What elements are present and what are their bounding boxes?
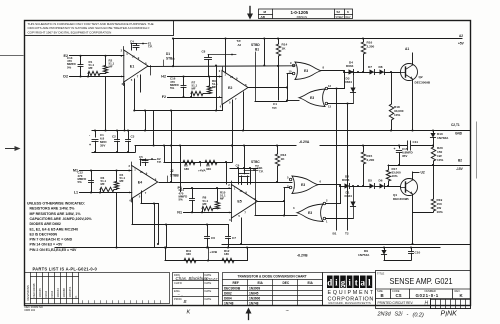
- wire strobe drop: [264, 39, 266, 66]
- svg-text:T2: T2: [345, 232, 349, 236]
- wire bus 4d: [230, 168, 258, 170]
- svg-text:9: 9: [245, 191, 247, 195]
- svg-text:PIN 2 ON E1,E2,E4,E5 = +8V: PIN 2 ON E1,E2,E4,E5 = +8V: [30, 248, 78, 252]
- bottom up arrow: [246, 308, 252, 320]
- svg-text:a: a: [361, 277, 366, 287]
- node J2 STBB: [167, 176, 169, 182]
- svg-text:52: 52: [337, 10, 341, 14]
- svg-text:TITLE: TITLE: [377, 271, 385, 275]
- svg-text:B: B: [381, 293, 384, 298]
- svg-text:-6.2VA: -6.2VA: [299, 140, 310, 144]
- wire Q2 emitter down: [412, 81, 414, 131]
- svg-text:35V: 35V: [100, 144, 105, 148]
- wire bus 5a: [154, 204, 156, 248]
- svg-text:C11: C11: [413, 140, 419, 144]
- svg-text:DEC3009B: DEC3009B: [224, 287, 241, 291]
- capacitor C12: [91, 171, 93, 181]
- svg-text:180: 180: [184, 167, 189, 171]
- capacitor C4: [131, 44, 133, 51]
- svg-text:D7: D7: [368, 65, 372, 69]
- svg-text:10: 10: [239, 189, 242, 193]
- svg-text:A2: A2: [238, 43, 242, 47]
- svg-text:MF: MF: [192, 87, 196, 91]
- svg-text:4: 4: [219, 95, 221, 99]
- svg-text:RESISTORS ARE 1/4W, 5%: RESISTORS ARE 1/4W, 5%: [30, 207, 76, 211]
- wire D9/C10 bottom: [384, 260, 411, 262]
- svg-text:9: 9: [146, 172, 148, 176]
- svg-text:12: 12: [328, 84, 331, 88]
- capacitor C15 6.8MFD: [399, 146, 401, 149]
- svg-text:3: 3: [228, 186, 230, 190]
- resistor R16 2,200: [363, 39, 365, 43]
- svg-text:D662: D662: [224, 292, 232, 296]
- svg-text:T.P.: T.P.: [272, 106, 277, 110]
- svg-text:330: 330: [186, 252, 191, 256]
- svg-text:DEC3009B: DEC3009B: [393, 197, 409, 201]
- svg-text:d: d: [327, 277, 332, 287]
- wire GND rail: [92, 130, 470, 132]
- svg-text:-15V: -15V: [456, 167, 464, 171]
- resistor R19 150 1W 10%: [433, 165, 435, 199]
- svg-text:PROD.: PROD.: [174, 297, 182, 301]
- wire input lines: [184, 188, 232, 190]
- op-amp E2: [222, 71, 248, 105]
- svg-text:H: H: [425, 301, 429, 307]
- svg-text:K: K: [74, 296, 78, 298]
- svg-text:D664: D664: [345, 194, 353, 198]
- parts list / revisions table: [25, 273, 170, 304]
- resistor R14 1K: [278, 39, 280, 45]
- signature block: [173, 273, 219, 306]
- svg-text:2: 2: [121, 49, 123, 53]
- wire gate2 in13: [328, 103, 353, 105]
- svg-text:+4VA: +4VA: [198, 169, 206, 173]
- svg-text:9: 9: [138, 56, 140, 60]
- svg-text:C9: C9: [236, 164, 240, 168]
- diode D4 D664: [344, 72, 349, 74]
- svg-text:MF: MF: [220, 197, 224, 201]
- gate E3 (pins 5,4,6): [292, 176, 318, 194]
- small rev boxes row: [431, 300, 471, 309]
- scan artifact: fold line right edge: [476, 122, 478, 178]
- wire R4 column down: [116, 193, 118, 248]
- svg-text:UNLESS OTHERWISE INDICATED:: UNLESS OTHERWISE INDICATED:: [27, 202, 85, 206]
- svg-text:180: 180: [224, 252, 229, 256]
- ruler ticks bottom of parts table: [83, 301, 161, 304]
- wire E1 pin7 stub: [140, 75, 142, 92]
- svg-text:T.P.: T.P.: [157, 160, 162, 164]
- svg-text:1: 1: [326, 220, 328, 224]
- svg-text:1K: 1K: [281, 157, 286, 161]
- handwriting bottom: [187, 309, 458, 319]
- svg-text:Q2: Q2: [419, 75, 423, 79]
- wire gate3 output to diode row: [318, 184, 340, 186]
- node +4VA: [199, 161, 201, 163]
- diode D1 D664: [353, 186, 355, 219]
- svg-text:EIA: EIA: [258, 281, 264, 285]
- node T.P. (E5): [244, 170, 258, 172]
- svg-text:1N753A: 1N753A: [358, 253, 370, 257]
- svg-text:6: 6: [320, 180, 322, 184]
- scan artifact: left margin line: [0, 55, 23, 57]
- svg-text:K: K: [187, 310, 191, 316]
- svg-text:7: 7: [145, 191, 147, 195]
- svg-text:E3: E3: [301, 183, 305, 187]
- svg-text:A1: A1: [405, 47, 409, 51]
- svg-text:C4: C4: [130, 39, 134, 43]
- svg-text:3: 3: [121, 54, 123, 58]
- svg-text:t: t: [355, 277, 358, 287]
- wire E2 pin5 drop: [232, 100, 234, 146]
- top reference strip box: [259, 9, 353, 19]
- wire +5V rail: [173, 38, 462, 40]
- svg-text:PIN 14 ON E3 = +5V: PIN 14 ON E3 = +5V: [30, 243, 64, 247]
- svg-text:DATE: DATE: [205, 281, 212, 285]
- op-amp E5: [231, 185, 257, 219]
- wire B1 column: [336, 89, 338, 231]
- wire bus 5b: [158, 204, 160, 245]
- svg-text:STBD: STBD: [251, 43, 260, 47]
- wire E4 pin5 loop: [141, 191, 143, 204]
- svg-text:SENSE AMP. G021: SENSE AMP. G021: [390, 276, 453, 286]
- svg-text:DATE: DATE: [205, 289, 212, 293]
- svg-text:MF: MF: [101, 182, 105, 186]
- wire gate4 in1: [326, 218, 353, 220]
- op-amp E1: [124, 50, 148, 82]
- op-amp E4: [132, 166, 158, 199]
- title block: [376, 271, 471, 309]
- wire Q1 emitter down: [412, 196, 414, 213]
- capacitor C7: [228, 225, 230, 237]
- wire bottom feedback bus: [132, 224, 228, 226]
- svg-text:D664: D664: [50, 290, 54, 297]
- svg-text:1N748: 1N748: [249, 302, 259, 306]
- resistor R9: [209, 77, 211, 87]
- resistor R3: [100, 187, 114, 191]
- svg-text:-: -: [407, 312, 409, 318]
- capacitor C2: [117, 131, 119, 140]
- svg-text:S2i: S2i: [395, 312, 404, 318]
- svg-text:A2: A2: [459, 34, 463, 38]
- svg-text:PARTS LIST IS A-PL-G021-0-0: PARTS LIST IS A-PL-G021-0-0: [33, 267, 98, 272]
- svg-text:+4VB: +4VB: [210, 250, 218, 254]
- wire E2 pin7 drop: [243, 92, 245, 131]
- resistor R5 180: [183, 160, 195, 164]
- handwritten down arrow top: [247, 7, 253, 20]
- wire bus 5: [180, 146, 182, 192]
- svg-text:J2: J2: [170, 169, 174, 173]
- svg-text:2: 2: [326, 199, 328, 203]
- capacitor C10: [411, 248, 413, 252]
- capacitor C6: [207, 225, 209, 237]
- svg-text:T2: T2: [255, 165, 259, 169]
- svg-text:35V: 35V: [402, 154, 407, 158]
- capacitor C11: [407, 141, 411, 150]
- wire cap bank top: [92, 130, 135, 132]
- wire bus 3: [150, 66, 152, 76]
- diode D5: [350, 186, 370, 188]
- wire Q1 collector to U2: [412, 172, 414, 179]
- svg-text:C5: C5: [139, 155, 143, 159]
- svg-text:g: g: [341, 277, 346, 287]
- svg-text:2N3d: 2N3d: [377, 312, 392, 318]
- svg-text:-: -: [89, 134, 91, 138]
- svg-text:10: 10: [132, 55, 135, 59]
- svg-text:B1: B1: [255, 48, 259, 52]
- svg-text:330: 330: [206, 167, 211, 171]
- svg-text:9: 9: [236, 77, 238, 81]
- svg-text:10: 10: [230, 75, 233, 79]
- capacitor C16: [183, 77, 185, 86]
- svg-text:STBB: STBB: [170, 174, 179, 178]
- svg-text:Chas. Blackburn: Chas. Blackburn: [176, 276, 210, 281]
- svg-text:(0.2): (0.2): [413, 313, 424, 319]
- resistor R7: [191, 91, 203, 95]
- svg-text:C7: C7: [232, 236, 236, 240]
- capacitor C9: [241, 176, 243, 185]
- svg-text:COPYRIGHT 1967 BY DIGITAL EQUI: COPYRIGHT 1967 BY DIGITAL EQUIPMENT CORP…: [28, 30, 112, 34]
- svg-text:D664: D664: [345, 80, 353, 84]
- svg-text:E3 IS DEC7400N: E3 IS DEC7400N: [30, 232, 58, 236]
- svg-text:5: 5: [287, 176, 289, 180]
- wire bus 2y: [153, 111, 155, 146]
- svg-text:PIN 7 ON EACH IC = GND: PIN 7 ON EACH IC = GND: [30, 238, 73, 242]
- svg-text:F2: F2: [162, 95, 166, 99]
- svg-text:2,200: 2,200: [367, 45, 375, 49]
- svg-text:M: M: [264, 10, 267, 14]
- svg-text:X8RSCN: X8RSCN: [297, 15, 308, 19]
- wire Q2 collector to A1: [412, 53, 414, 64]
- svg-text:1N645: 1N645: [249, 292, 259, 296]
- border frame: [25, 21, 471, 306]
- svg-text:7: 7: [235, 97, 237, 101]
- resistor R6 330: [205, 160, 217, 164]
- svg-text:100088: 100088: [62, 288, 66, 298]
- diode D3 D664: [353, 72, 355, 104]
- svg-text:~: ~: [286, 309, 290, 315]
- gate E3 (pins 3,2,1): [297, 204, 323, 222]
- resistor R8: [202, 206, 213, 210]
- svg-text:CAPACITORS ARE .01MFD,100V,20%: CAPACITORS ARE .01MFD,100V,20%: [30, 217, 93, 221]
- wire bottom rail: [222, 244, 470, 246]
- wire E1 pin5 drop: [134, 79, 136, 111]
- wire -15V rail: [388, 165, 470, 167]
- svg-text:H2: H2: [161, 75, 166, 79]
- svg-text:B1: B1: [333, 232, 337, 236]
- transistor Q2 DEC3009B: [401, 64, 418, 81]
- svg-text:6: 6: [220, 105, 222, 109]
- svg-text:9: 9: [290, 61, 292, 65]
- svg-text:C6: C6: [211, 236, 215, 240]
- wire gate2 in12: [328, 88, 344, 90]
- svg-text:1N748: 1N748: [224, 302, 234, 306]
- resistor R4: [116, 171, 118, 182]
- diode D10 1N748A: [433, 131, 435, 134]
- svg-text:MF RESISTORS ARE 1/8W, 1%: MF RESISTORS ARE 1/8W, 1%: [30, 212, 82, 216]
- wire divider A: [164, 162, 232, 164]
- svg-text:C2,T1: C2,T1: [451, 123, 460, 127]
- svg-text:10%: 10%: [437, 210, 443, 214]
- svg-text:5%: 5%: [170, 86, 175, 90]
- wire bus 1c: [216, 66, 218, 111]
- svg-text:D5: D5: [368, 179, 372, 183]
- wire input lines: [168, 76, 223, 78]
- transistor Q1 DEC3009B: [401, 179, 418, 196]
- svg-text:D662: D662: [44, 290, 48, 297]
- resistor R1: [88, 71, 100, 75]
- svg-text:DRB 102: DRB 102: [25, 308, 36, 312]
- svg-text:100045: 100045: [38, 288, 42, 298]
- resistor R15 2,200: [363, 146, 365, 153]
- svg-text:DEC: DEC: [283, 281, 290, 285]
- svg-text:1N3606: 1N3606: [249, 297, 260, 301]
- wire E5 output: [257, 201, 284, 203]
- svg-text:E2: E2: [228, 86, 232, 90]
- svg-text:10: 10: [140, 170, 143, 174]
- svg-text:N1: N1: [177, 211, 182, 215]
- wire gate1 output to diode row: [321, 70, 344, 72]
- svg-text:E5: E5: [237, 200, 241, 204]
- wire E2 output: [248, 87, 287, 89]
- svg-text:DEC3009B: DEC3009B: [32, 283, 36, 297]
- svg-text:E1: E1: [130, 64, 134, 68]
- resistor R13 1K: [277, 146, 279, 155]
- resistor R20 150 1W 10%: [431, 147, 435, 161]
- svg-text:MAYNARD, MASSACHUSETTS: MAYNARD, MASSACHUSETTS: [329, 302, 372, 305]
- warning box top-left: [25, 21, 174, 36]
- svg-text:E3: E3: [310, 96, 314, 100]
- svg-text:MF: MF: [89, 66, 93, 70]
- svg-text:1K: 1K: [282, 47, 287, 51]
- svg-text:L1: L1: [74, 191, 78, 195]
- wire E1 output to gate: [148, 65, 295, 68]
- capacitor C14: [192, 188, 194, 199]
- svg-text:D1: D1: [166, 52, 170, 56]
- svg-text:100063: 100063: [56, 288, 60, 298]
- svg-text:-6.2VB: -6.2VB: [297, 254, 308, 258]
- wire -6.2VA rail: [135, 145, 296, 147]
- svg-text:D6: D6: [379, 179, 383, 183]
- wire E2 +V drop: [225, 39, 227, 73]
- svg-text:CHK'D: CHK'D: [174, 281, 182, 285]
- wire E4 output to gate: [159, 182, 292, 184]
- left margin arrow: [6, 146, 21, 151]
- node D1 STBA: [163, 60, 165, 66]
- svg-text:SHEET: SHEET: [336, 16, 345, 19]
- diode D8: [374, 72, 379, 74]
- wire bus 4c: [250, 168, 252, 184]
- svg-text:2: 2: [219, 69, 221, 73]
- svg-text:PRINTED CIRCUIT REV.: PRINTED CIRCUIT REV.: [378, 301, 414, 305]
- svg-text:5: 5: [139, 195, 141, 199]
- svg-text:DATE: DATE: [205, 297, 212, 301]
- svg-text:E1, E2, E4 & E5 ARE MC1540: E1, E2, E4 & E5 ARE MC1540: [30, 227, 79, 231]
- svg-text:GND: GND: [455, 132, 463, 136]
- svg-text:5: 5: [131, 78, 133, 82]
- svg-text:EIA: EIA: [308, 281, 314, 285]
- gate E3 (pins 9,10,8): [295, 62, 321, 80]
- diode D9 1N753A: [384, 248, 386, 251]
- capacitor C3: [128, 131, 130, 140]
- resistor R2: [105, 56, 107, 66]
- capacitor C5: [140, 159, 142, 166]
- wire C9 column to -6.2VA rail: [244, 146, 246, 169]
- svg-text:2: 2: [129, 164, 131, 168]
- svg-text:B: B: [184, 299, 187, 304]
- svg-text:REF: REF: [233, 281, 239, 285]
- wire -6.2VA rail segment B: [320, 145, 433, 147]
- svg-text:EQUIPMENT: EQUIPMENT: [328, 290, 375, 296]
- svg-text:D8: D8: [379, 65, 383, 69]
- svg-text:~ ..: ~ ..: [178, 292, 184, 297]
- resistor R18 33,000: [384, 72, 400, 74]
- svg-text:3: 3: [293, 206, 295, 210]
- transistor & diode conversion chart: [223, 273, 323, 306]
- svg-text:6: 6: [229, 218, 231, 222]
- svg-text:MF: MF: [120, 179, 124, 183]
- svg-text:10: 10: [289, 70, 292, 74]
- svg-text:1N3009: 1N3009: [249, 287, 260, 291]
- wire feedback E2 to E1 bus: [134, 110, 222, 112]
- svg-text:E4: E4: [138, 180, 142, 184]
- svg-text:7: 7: [244, 211, 246, 215]
- svg-text:T.P.: T.P.: [259, 170, 264, 174]
- svg-text:G021-0-1: G021-0-1: [416, 293, 439, 298]
- capacitor C13: [80, 56, 82, 65]
- svg-text:MF: MF: [203, 202, 207, 206]
- wire E1 pin6 drop: [124, 83, 126, 131]
- svg-text:DEC3009B: DEC3009B: [415, 81, 431, 85]
- resistor R17 33,000: [384, 186, 400, 188]
- node E1 T.P.: [136, 43, 147, 45]
- svg-text:5: 5: [238, 214, 240, 218]
- wire bus 4: [171, 111, 173, 183]
- resistor R10: [217, 188, 219, 201]
- node +4VB: [207, 259, 209, 261]
- wire -6.2VB rail: [55, 247, 440, 249]
- wire T2 column: [347, 104, 349, 231]
- resistor R12 180: [222, 258, 234, 262]
- svg-text:10%: 10%: [392, 174, 398, 178]
- svg-text:13: 13: [328, 105, 331, 109]
- svg-text:AB: AB: [261, 15, 266, 19]
- svg-text:K: K: [460, 293, 464, 298]
- svg-text:8: 8: [323, 66, 325, 70]
- svg-text:DIODES ARE D662: DIODES ARE D662: [30, 222, 61, 226]
- svg-text:C10: C10: [415, 251, 421, 255]
- svg-text:5%: 5%: [179, 198, 184, 202]
- svg-text:4-10-67: 4-10-67: [205, 277, 218, 281]
- wire latch B feedback: [284, 187, 289, 189]
- svg-text:C2: C2: [112, 135, 116, 139]
- svg-text:REVISIONS: REVISIONS: [26, 285, 30, 300]
- node K2 T.P.: [145, 159, 156, 161]
- wire divider B: [165, 260, 247, 262]
- digital logo block: [323, 273, 376, 306]
- svg-text:1000451: 1000451: [68, 286, 72, 297]
- wire gate4 in2: [326, 203, 340, 205]
- wire latch feedback (gate2 out to gate1 in10): [287, 73, 292, 75]
- svg-text:TRANSISTOR & DIODE CONVERSION: TRANSISTOR & DIODE CONVERSION CHART: [238, 275, 307, 279]
- svg-text:+: +: [394, 147, 396, 151]
- svg-text:D664: D664: [342, 178, 350, 182]
- svg-text:E3: E3: [308, 211, 312, 215]
- wire input lines: [70, 55, 124, 57]
- wire bus 4b: [226, 162, 228, 184]
- svg-text:C3: C3: [131, 135, 135, 139]
- svg-text:1-0-1205: 1-0-1205: [291, 10, 309, 15]
- svg-text:D664: D664: [346, 64, 354, 68]
